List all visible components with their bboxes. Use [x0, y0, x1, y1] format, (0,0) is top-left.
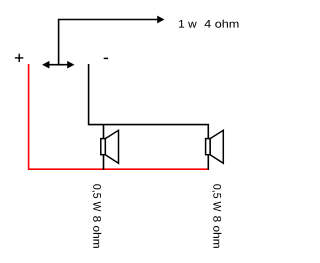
speaker LS1 (left): driver rectangle: [101, 139, 106, 155]
speaker LS2 (right): driver rectangle: [206, 139, 211, 155]
label: 8 ohm (left, rotated): [93, 216, 101, 248]
label: 8 ohm (right, rotated): [213, 216, 221, 248]
plus terminal symbol: [15, 54, 23, 62]
label: 0,5 W (right, rotated): [212, 184, 221, 211]
balance (fader) double-headed arrow: [42, 61, 74, 69]
speaker LS1 (left): cone: [105, 130, 118, 163]
wire: top output arrow shaft with corner down to balance arrow: [59, 20, 158, 65]
label: 0,5 W (left, rotated): [92, 184, 101, 211]
wire: red positive lead (left vertical + bottom horizontal): [29, 64, 209, 169]
label: 4 ohm: [204, 20, 238, 28]
speaker LS2 (right): cone: [210, 130, 223, 163]
arrowhead on top output wire: [157, 16, 164, 24]
wire: left speaker drop to bottom red wire: [103, 125, 105, 170]
wire: negative lead down, across, and down to right speaker: [89, 64, 209, 170]
minus terminal symbol: [104, 57, 108, 59]
label: 1 W: [179, 20, 197, 28]
